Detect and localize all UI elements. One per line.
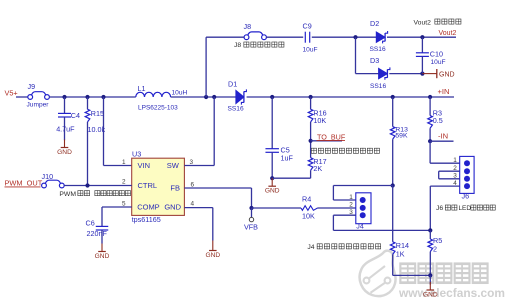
svg-text:10uF: 10uF xyxy=(431,59,446,66)
wire J6 pin2-pin3 loop xyxy=(438,171,440,179)
connector J6 body xyxy=(460,156,474,193)
ground C4 xyxy=(61,140,69,148)
svg-text:J4: J4 xyxy=(307,244,314,251)
port VFB xyxy=(249,217,253,221)
resistor R5 xyxy=(428,239,433,252)
wire R13 to J4 junction xyxy=(392,139,394,185)
svg-text:10uH: 10uH xyxy=(172,89,188,96)
wire to D3 xyxy=(356,73,379,75)
svg-text:GND: GND xyxy=(265,188,280,195)
svg-text:J8: J8 xyxy=(244,22,252,31)
svg-text:1K: 1K xyxy=(396,250,405,259)
svg-text:4.7uF: 4.7uF xyxy=(56,125,75,134)
junction SW branch xyxy=(212,95,216,99)
svg-text:L1: L1 xyxy=(138,84,146,93)
svg-text:GND: GND xyxy=(439,71,455,78)
jumper J10 xyxy=(42,180,65,188)
wire D3 to C10 xyxy=(389,73,422,75)
svg-text:V5+: V5+ xyxy=(5,88,18,97)
wire to C4 xyxy=(64,97,66,113)
svg-text:10K: 10K xyxy=(302,211,315,220)
svg-text:COMP: COMP xyxy=(137,203,160,212)
junction TO_BUF xyxy=(309,139,313,143)
svg-text:-IN: -IN xyxy=(438,132,448,141)
wire to VIN vertical xyxy=(103,97,105,166)
wire J6 pin2 xyxy=(439,170,460,172)
wire rail up to J8 net xyxy=(205,37,207,97)
wire J6 pin3 xyxy=(439,178,460,180)
svg-text:CTRL: CTRL xyxy=(138,181,158,190)
wire to R3 xyxy=(429,97,431,116)
junction C10 top xyxy=(420,35,424,39)
annotation divider resistor voltage sense xyxy=(311,148,316,153)
svg-text:R4: R4 xyxy=(302,194,311,203)
wire SW pin xyxy=(184,165,214,167)
wire J6 pin4 down xyxy=(429,186,431,230)
junction -IN xyxy=(428,139,432,143)
wire R14 to bottom rail xyxy=(392,254,394,275)
wire R15 to CTRL net xyxy=(87,122,89,186)
connector J6 pins xyxy=(464,160,470,189)
svg-text:+IN: +IN xyxy=(438,87,450,96)
connector J4 pins xyxy=(360,197,366,218)
wire D2 to Vout2 xyxy=(387,36,456,38)
svg-text:1: 1 xyxy=(122,159,126,166)
resistor R14 xyxy=(390,242,395,255)
svg-text:R15: R15 xyxy=(91,109,104,118)
svg-text:FB: FB xyxy=(170,184,180,193)
watermark brand glyphs xyxy=(400,264,415,283)
svg-text:C4: C4 xyxy=(71,111,80,120)
svg-text:Jumper: Jumper xyxy=(27,102,50,109)
diode D3 xyxy=(379,67,390,79)
annotation current meter xyxy=(477,205,482,210)
svg-text:6: 6 xyxy=(191,181,195,188)
junction R16 tap xyxy=(309,95,313,99)
svg-text:GND: GND xyxy=(95,253,110,260)
wire SW up to rail xyxy=(213,97,215,166)
wire R17 bottom xyxy=(310,170,312,178)
annotation J4 select voltage or current mode xyxy=(317,244,322,249)
svg-text:J4: J4 xyxy=(356,221,364,230)
svg-text:4: 4 xyxy=(191,200,195,207)
wire to J6 pin1 xyxy=(430,162,460,164)
wire J4 pin3 down xyxy=(332,215,334,230)
svg-text:GND: GND xyxy=(164,203,181,212)
wire C5 to gnd junction xyxy=(271,152,273,178)
jumper J8 xyxy=(244,32,266,40)
svg-text:2K: 2K xyxy=(313,164,322,173)
junction R13 R14 J4 xyxy=(391,183,395,187)
annotation huozhe xyxy=(78,191,83,196)
junction bottom gnd xyxy=(428,273,432,277)
ground bottom xyxy=(427,282,435,290)
wire C4 to gnd xyxy=(64,117,66,140)
svg-text:D2: D2 xyxy=(370,19,379,28)
junction C4 tap xyxy=(62,95,66,99)
wire C5 to R17 bottom xyxy=(272,177,310,179)
wire J9 to L1 xyxy=(49,96,135,98)
diode D1 xyxy=(236,89,247,104)
junction C5 R17 xyxy=(270,176,274,180)
wire FB pin xyxy=(184,187,251,189)
wire TO_BUF stub xyxy=(311,140,342,142)
wire to R4 xyxy=(252,207,302,209)
svg-text:PWM_OUT: PWM_OUT xyxy=(5,178,43,187)
svg-text:J9: J9 xyxy=(28,82,36,91)
annotation J8 control negative output xyxy=(244,42,249,47)
wire bottom rail xyxy=(393,274,431,276)
wire D1 to +IN xyxy=(247,96,454,98)
junction R5 top xyxy=(428,228,432,232)
svg-text:VIN: VIN xyxy=(138,161,151,170)
svg-text:SS16: SS16 xyxy=(370,46,386,53)
wire R5 to bottom rail xyxy=(429,252,431,276)
wire GND pin xyxy=(184,207,212,209)
wire R4 to J4 pin2 xyxy=(318,207,356,209)
wire C10 upper xyxy=(421,37,423,53)
ground C5 xyxy=(268,178,276,186)
svg-text:Vout2: Vout2 xyxy=(414,20,432,27)
wire J4 pin1 xyxy=(333,199,355,201)
wire down to gnd xyxy=(212,208,214,241)
wire to R15 xyxy=(87,97,89,109)
svg-text:LPS6225-103: LPS6225-103 xyxy=(138,105,178,112)
resistor R3 xyxy=(428,116,433,129)
wire R16 to R17 xyxy=(310,122,312,158)
svg-text:1uF: 1uF xyxy=(281,153,294,162)
wire J4 pin1 to R13 junction xyxy=(333,185,392,187)
resistor R15 xyxy=(85,109,90,122)
wire C10 lower xyxy=(421,56,423,73)
wire down to D3 xyxy=(355,37,357,73)
wire J4 pin3 xyxy=(333,214,355,216)
wire J4 pin3 to R5 xyxy=(333,229,430,231)
capacitor C10 xyxy=(416,53,429,57)
connector J4 body xyxy=(356,193,371,224)
svg-text:U3: U3 xyxy=(132,150,141,159)
junction VIN tap xyxy=(101,95,105,99)
net label TO_BUF underline xyxy=(317,139,346,141)
wire to bottom gnd xyxy=(429,275,431,284)
junction C10 bottom xyxy=(420,72,424,76)
wire -IN stub xyxy=(430,140,453,142)
wire to VFB port xyxy=(251,208,253,217)
resistor R17 xyxy=(308,158,313,171)
junction VFB xyxy=(249,206,253,210)
wire -IN down xyxy=(429,141,431,163)
svg-text:tps61165: tps61165 xyxy=(132,215,161,224)
svg-text:GND: GND xyxy=(57,149,72,156)
diode D2 xyxy=(376,31,387,43)
svg-text:VFB: VFB xyxy=(244,222,258,231)
ground C6 xyxy=(98,244,106,252)
svg-text:3: 3 xyxy=(190,159,194,166)
svg-text:J10: J10 xyxy=(42,172,54,181)
svg-text:GND: GND xyxy=(423,291,438,298)
svg-text:10uF: 10uF xyxy=(303,46,318,53)
svg-text:C6: C6 xyxy=(86,219,95,228)
watermark logo xyxy=(360,251,396,296)
wire to VIN pin xyxy=(104,165,132,167)
svg-text:SW: SW xyxy=(167,161,180,170)
ground U3 xyxy=(209,241,217,251)
wire to J8 xyxy=(206,36,244,38)
wire COMP pin xyxy=(102,206,132,208)
junction C5 tap xyxy=(270,95,274,99)
inductor L1 xyxy=(136,92,171,97)
wire to C5 xyxy=(271,97,273,149)
svg-text:220nF: 220nF xyxy=(87,229,108,238)
wire to R14 xyxy=(392,186,394,242)
wire FB down xyxy=(251,188,253,208)
wire to C6 xyxy=(101,207,103,226)
resistor R4 xyxy=(301,206,318,211)
op-amp U3 tps61165 body xyxy=(132,158,185,215)
svg-text:2: 2 xyxy=(349,202,353,209)
resistor R16 xyxy=(308,109,313,122)
svg-text:Vout2: Vout2 xyxy=(439,30,457,37)
svg-text:J8: J8 xyxy=(234,42,241,49)
svg-text:GND: GND xyxy=(205,252,220,259)
power port GND right style xyxy=(422,69,436,78)
svg-text:D3: D3 xyxy=(370,56,379,65)
wire to R16 xyxy=(310,97,312,109)
svg-text:2: 2 xyxy=(122,179,126,186)
wire C6 to gnd xyxy=(101,230,103,244)
annotation Vout2 negative output xyxy=(435,19,440,24)
junction R15 bottom xyxy=(85,183,89,187)
svg-text:D1: D1 xyxy=(228,80,237,89)
junction R15 tap xyxy=(85,95,89,99)
wire J4 pin1 up xyxy=(332,186,334,201)
junction R3 tap xyxy=(428,95,432,99)
junction D3 branch xyxy=(353,35,357,39)
jumper J9 xyxy=(28,92,50,100)
junction J8 branch xyxy=(204,95,208,99)
svg-text:10.0k: 10.0k xyxy=(88,125,106,134)
svg-text:SS16: SS16 xyxy=(228,106,244,113)
capacitor C9 xyxy=(305,32,309,43)
annotation J6 series xyxy=(445,205,450,210)
svg-text:J6: J6 xyxy=(462,192,470,201)
svg-text:C10: C10 xyxy=(430,50,443,59)
svg-text:1: 1 xyxy=(453,157,457,164)
net label PWM_OUT underline xyxy=(5,186,41,188)
capacitor C5 xyxy=(265,149,279,153)
capacitor C6 xyxy=(96,226,109,230)
annotation single wire digital control xyxy=(95,191,100,196)
wire C9 to D2 xyxy=(312,36,377,38)
wire V5+ to J9 xyxy=(16,96,28,98)
svg-text:59K: 59K xyxy=(395,133,408,140)
svg-text:10K: 10K xyxy=(313,116,326,125)
wire J8 to C9 xyxy=(266,36,303,38)
svg-text:PWM: PWM xyxy=(59,191,76,198)
svg-text:LED: LED xyxy=(459,205,472,212)
wire J10 to CTRL xyxy=(64,185,132,187)
annotation and xyxy=(471,205,476,210)
svg-text:C9: C9 xyxy=(303,21,312,30)
wire to R5 xyxy=(429,230,431,239)
svg-text:www.elecfans.com: www.elecfans.com xyxy=(398,286,505,300)
svg-text:2: 2 xyxy=(433,244,437,253)
svg-text:J6: J6 xyxy=(436,205,443,212)
wire R3 to -IN xyxy=(429,128,431,141)
junction R13 tap xyxy=(391,95,395,99)
wire to R13 xyxy=(392,97,394,127)
wire J6 pin4 xyxy=(430,185,459,187)
svg-text:5: 5 xyxy=(122,200,126,207)
wire L1 to D1 xyxy=(171,96,236,98)
resistor R13 xyxy=(390,127,395,140)
svg-text:0.5: 0.5 xyxy=(433,116,443,125)
svg-text:SS16: SS16 xyxy=(370,83,386,90)
capacitor C4 xyxy=(58,113,71,117)
